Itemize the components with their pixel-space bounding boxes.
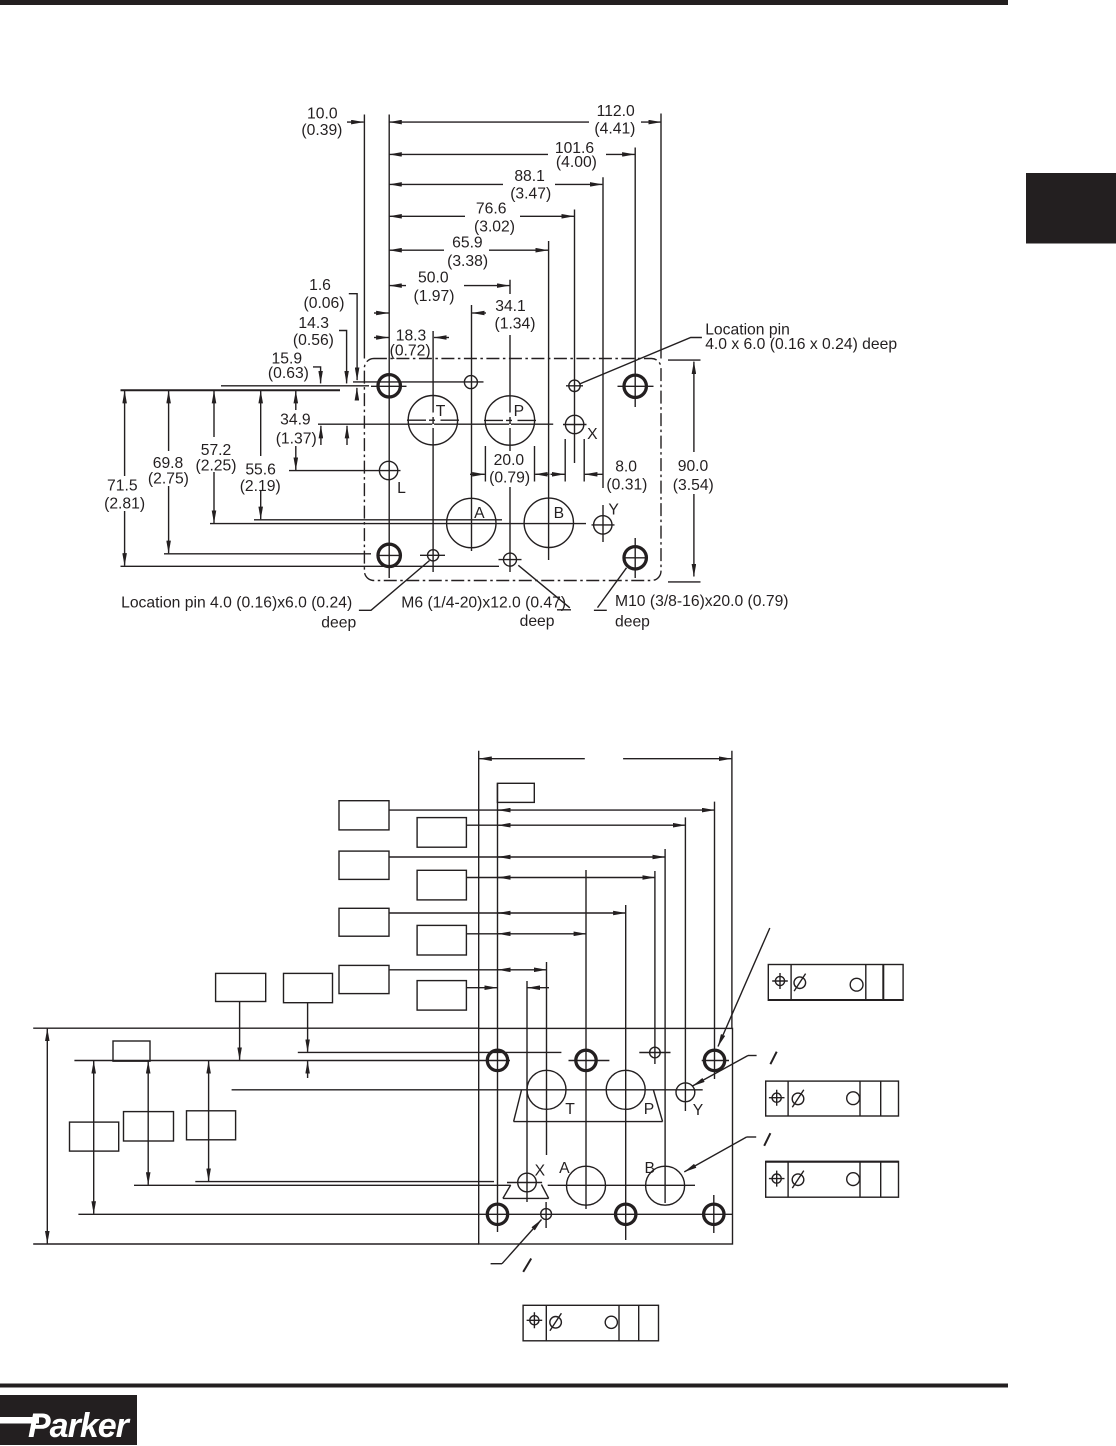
right edge black tab [1026, 173, 1116, 244]
svg-text:(3.54): (3.54) [673, 477, 714, 494]
svg-text:(1.97): (1.97) [414, 288, 455, 305]
svg-text:(2.75): (2.75) [148, 471, 189, 488]
bolt top-left horizontal centerline [371, 385, 407, 387]
dim 112.0 line [389, 121, 589, 123]
pin top horizontal centerline [566, 385, 583, 387]
svg-text:L: L [397, 480, 406, 497]
bolt bottom-left horizontal centerline [377, 554, 403, 556]
gasket trapezoid right slant [653, 1090, 662, 1122]
port T center dashes [407, 419, 459, 421]
dim 57.2 line [213, 391, 215, 523]
value box L4 [187, 1111, 236, 1140]
svg-text:deep: deep [321, 615, 356, 632]
bolt bottom-right vertical center tick [634, 538, 636, 578]
dim row 6 [389, 912, 626, 914]
svg-text:69.8: 69.8 [153, 455, 184, 472]
datum line A (top offset line) [353, 381, 484, 383]
leader M6 bottom [518, 565, 571, 610]
slash B [764, 1133, 770, 1146]
svg-text:76.6: 76.6 [476, 200, 507, 217]
GD&T frame 1 [768, 965, 903, 1001]
svg-text:P: P [514, 403, 524, 420]
svg-text:B: B [644, 1160, 654, 1177]
svg-text:(2.81): (2.81) [104, 495, 145, 512]
X flag bottom [503, 1197, 549, 1199]
value box B4 [417, 981, 466, 1011]
port Y [594, 516, 612, 534]
column X [526, 981, 528, 1202]
dim 8.0 arrows (outside) [551, 473, 565, 475]
svg-text:112.0: 112.0 [597, 103, 635, 120]
row: pin line top [298, 1051, 562, 1053]
port L horizontal line (34.9 row) [289, 470, 401, 472]
svg-text:Parker: Parker [28, 1407, 131, 1445]
svg-text:20.0: 20.0 [494, 452, 525, 469]
extension line plate left top [478, 751, 480, 1029]
value box L1 [113, 1041, 150, 1061]
column B [664, 849, 666, 1203]
location pin bottom [428, 550, 439, 561]
pin hole bottom [541, 1209, 552, 1220]
dim row 9 (outside arrows) [466, 987, 497, 989]
location pin top [569, 380, 580, 391]
row: T/P centerline [232, 1089, 703, 1091]
svg-text:Y: Y [693, 1102, 704, 1119]
svg-text:(0.31): (0.31) [606, 477, 647, 494]
69.8 extension line [164, 553, 371, 555]
svg-text:(4.41): (4.41) [594, 121, 635, 138]
dim 18.3 arrows (outside) [374, 337, 389, 339]
row: A/B upper line [195, 1181, 494, 1183]
svg-text:34.1: 34.1 [495, 298, 526, 315]
GD&T frame 2 [766, 1081, 899, 1116]
column Y [684, 817, 686, 1111]
svg-text:T: T [565, 1101, 575, 1118]
71.5 extension line [121, 565, 500, 567]
svg-text:X: X [587, 426, 598, 443]
bolt hole top-left M10 [378, 375, 400, 397]
leader 1.6 [349, 294, 357, 299]
bolt top-right horizontal centerline [618, 385, 654, 387]
datum column (bolt left) [497, 783, 499, 1232]
dim 10.0 arrow [347, 121, 364, 123]
extension line: plate right edge up [660, 114, 662, 359]
pin hole top [650, 1047, 661, 1058]
svg-text:Location pin 4.0 (0.16)x6.0 (0: Location pin 4.0 (0.16)x6.0 (0.24) [121, 594, 352, 611]
row: plate top extended left [33, 1027, 479, 1029]
svg-text:A: A [474, 505, 485, 522]
extension line: 18.3 column (pin bottom) [432, 331, 434, 572]
M6 hole bottom [504, 553, 517, 566]
row: A/B centerline [134, 1184, 695, 1186]
svg-text:1.6: 1.6 [309, 277, 331, 294]
dim row 3 [466, 824, 685, 826]
extension line: 101.6 column (bolt right) [634, 148, 636, 408]
dim 34.1 arrows (outside) [374, 312, 389, 314]
svg-text:(0.63): (0.63) [268, 365, 309, 382]
leader pin bottom [491, 1263, 502, 1265]
extension/center line: bolt column left [388, 115, 390, 579]
svg-text:(0.79): (0.79) [489, 470, 530, 487]
M6 bottom horizontal centerline [499, 559, 522, 561]
value box L3 [124, 1112, 174, 1141]
left vertical dim (overall height) [46, 1029, 48, 1244]
dim row 1 (overall width) [479, 758, 585, 760]
port X horizontal centerline [563, 424, 587, 426]
extension line: 76.6 column (pin top / port X) [574, 210, 576, 464]
extension line: 34.1 column (M6 top / port A) [471, 305, 473, 551]
svg-text:10.0: 10.0 [307, 106, 338, 123]
dim 90.0 extension ticks [668, 359, 701, 361]
pin top crosshair horizontal [639, 1052, 670, 1054]
pin bottom vertical tick [545, 1202, 547, 1228]
port Y horizontal centerline [592, 524, 615, 526]
svg-text:55.6: 55.6 [245, 462, 276, 479]
port T [408, 396, 457, 445]
text halos [100, 476, 150, 511]
leader port B [747, 1136, 757, 1138]
value box B1 [417, 818, 466, 848]
bolt hole top-left [487, 1050, 507, 1070]
GD&T frame 3 [766, 1161, 899, 1197]
column P / bolt mid-bottom [625, 905, 627, 1240]
T/P offset line [318, 423, 553, 425]
value box B2 [417, 870, 466, 900]
leader location pin bottom [359, 561, 430, 611]
port Y bottom view [676, 1083, 695, 1102]
slash Y [770, 1052, 776, 1065]
svg-text:(0.39): (0.39) [301, 122, 342, 139]
extension line: 50.0 column (port P / M6 bottom) [509, 280, 511, 572]
value box M2 [284, 973, 333, 1002]
svg-text:M10 (3/8-16)x20.0 (0.79): M10 (3/8-16)x20.0 (0.79) [615, 593, 789, 610]
pin bottom horizontal centerline [420, 554, 445, 556]
dim 8.0 extension lines (port X edges) [564, 439, 566, 482]
value box L2 [70, 1122, 119, 1151]
value box B3 [417, 925, 466, 955]
row: bolt bottom centerline [78, 1213, 732, 1215]
svg-text:4.0 x 6.0 (0.16 x 0.24) deep: 4.0 x 6.0 (0.16 x 0.24) deep [705, 336, 897, 353]
svg-text:Y: Y [608, 501, 619, 518]
svg-text:deep: deep [520, 613, 555, 630]
extension line: 88.1 column (port Y upper) [602, 177, 604, 488]
svg-text:(0.72): (0.72) [390, 343, 431, 360]
port Y vertical center tick [602, 505, 604, 542]
svg-text:(0.56): (0.56) [293, 332, 334, 349]
value box V1 [497, 783, 534, 802]
svg-text:(4.00): (4.00) [556, 154, 597, 171]
bolt hole top-mid [576, 1050, 596, 1070]
column bolt right [714, 802, 716, 1079]
svg-text:88.1: 88.1 [514, 168, 545, 185]
svg-text:65.9: 65.9 [452, 235, 483, 252]
svg-text:P: P [644, 1101, 654, 1118]
extension line: 65.9 column (port B) [548, 241, 550, 560]
X flag right slant [541, 1185, 548, 1199]
slash pin [523, 1259, 531, 1272]
svg-text:A: A [559, 1160, 570, 1177]
port P [485, 396, 534, 445]
top header bar [0, 0, 1008, 5]
row: bolt top centerline [74, 1060, 729, 1062]
value box A2 [339, 851, 389, 879]
dim 90.0 line [693, 362, 695, 577]
left vertical dim 2 [93, 1061, 95, 1214]
gasket trapezoid bottom [514, 1121, 663, 1123]
bolt hole bottom-right M10 [624, 547, 646, 569]
extension line: plate left edge up [363, 115, 365, 359]
dim 20.0 arrows (outside) [470, 473, 485, 475]
bolt hole bottom-left M10 [378, 544, 400, 566]
row: plate bottom extended left [33, 1243, 479, 1245]
port B [524, 498, 573, 547]
dim 65.9 line [389, 249, 444, 251]
dim 20.0 extension lines (port P edges) [484, 446, 486, 482]
port A [447, 498, 496, 547]
centerline breaks in T/P verticals [432, 413, 434, 418]
svg-text:(2.25): (2.25) [196, 458, 237, 475]
bolt bottom-right vertical tick [713, 1195, 715, 1233]
leader location pin top [580, 338, 702, 385]
port X [565, 415, 583, 433]
left vertical dim 3 [147, 1061, 149, 1185]
svg-text:(3.47): (3.47) [510, 185, 551, 202]
dim row 8 [389, 969, 547, 971]
datum line B (bolt row left) [221, 385, 369, 387]
datum line C (lower, 2px) [121, 389, 341, 391]
port A bottom view [567, 1166, 606, 1205]
GD&T frame 4 (bottom) [523, 1305, 658, 1341]
svg-text:deep: deep [615, 614, 650, 631]
column pin top [654, 871, 656, 1064]
box M1 drop line [239, 1002, 241, 1060]
extension line plate right top [731, 751, 733, 1029]
svg-text:(1.34): (1.34) [495, 316, 536, 333]
leader 15.9 [313, 367, 321, 371]
dim 34.9 line [295, 391, 297, 470]
svg-text:(0.06): (0.06) [304, 295, 345, 312]
svg-text:8.0: 8.0 [615, 459, 637, 476]
leader to bolt top-right [718, 928, 770, 1047]
svg-text:14.3: 14.3 [298, 315, 329, 332]
svg-text:34.9: 34.9 [280, 412, 311, 429]
port P bottom view [606, 1070, 645, 1109]
svg-text:(1.37): (1.37) [276, 430, 317, 447]
box M2 up arrow [307, 1061, 309, 1078]
X crosshair horizontal [507, 1182, 542, 1184]
svg-text:50.0: 50.0 [418, 270, 449, 287]
dim 55.6 line [260, 391, 262, 519]
left vertical dim 4 [208, 1061, 210, 1181]
A/B centerline (57.2 row) [210, 523, 586, 525]
value box M1 [216, 973, 266, 1001]
mounting plate outline (dash-dot) [364, 359, 661, 581]
port L [379, 461, 397, 479]
svg-text:X: X [535, 1162, 546, 1179]
svg-text:M6 (1/4-20)x12.0 (0.47): M6 (1/4-20)x12.0 (0.47) [401, 594, 566, 611]
dim 71.5 line [124, 391, 126, 566]
port T bottom view [527, 1070, 566, 1109]
svg-text:(3.38): (3.38) [447, 253, 488, 270]
bolt hole bottom-left [487, 1204, 507, 1224]
svg-text:57.2: 57.2 [201, 442, 232, 459]
svg-text:T: T [436, 403, 446, 420]
leader 14.3 [339, 331, 347, 336]
footer rule [0, 1384, 1008, 1388]
bolt hole top-right [704, 1050, 724, 1070]
valve body outline [479, 1028, 733, 1244]
svg-text:90.0: 90.0 [678, 458, 709, 475]
Parker logo block [0, 1395, 137, 1445]
svg-text:(3.02): (3.02) [474, 219, 515, 236]
dim 88.1 line [389, 183, 503, 185]
bolt bottom-right horizontal centerline [623, 557, 648, 559]
leader M10 [594, 568, 627, 611]
M6 hole top [464, 376, 477, 389]
port B bottom view [646, 1166, 685, 1205]
gasket trapezoid left slant [514, 1090, 522, 1122]
dim 50.0 line [389, 285, 406, 287]
dim 101.6 line [389, 153, 548, 155]
bolt hole bottom-right [704, 1204, 724, 1224]
svg-text:(2.19): (2.19) [240, 478, 281, 495]
value box A3 [339, 908, 389, 936]
value box A4 [339, 965, 389, 993]
bolt hole top-right M10 [624, 375, 646, 397]
X flag left slant [503, 1185, 511, 1198]
box M2 drop line [307, 1003, 309, 1052]
dim row 2 [389, 809, 715, 811]
column A / bolt mid-top [585, 870, 587, 1209]
dim row 5 [466, 877, 655, 879]
55.6 extension line [254, 519, 502, 521]
dim row 4 [389, 856, 665, 858]
svg-text:71.5: 71.5 [107, 478, 138, 495]
column T / pin bottom [546, 962, 548, 1155]
bolt hole bottom-mid [616, 1204, 636, 1224]
port P center dashes [484, 419, 536, 421]
dim 76.6 line [389, 215, 465, 217]
leader port Y [748, 1055, 757, 1057]
dim row 7 [466, 933, 586, 935]
value box A1 [339, 801, 389, 830]
dim 69.8 line [168, 391, 170, 553]
svg-text:B: B [554, 505, 564, 522]
port X bottom view [518, 1173, 537, 1192]
